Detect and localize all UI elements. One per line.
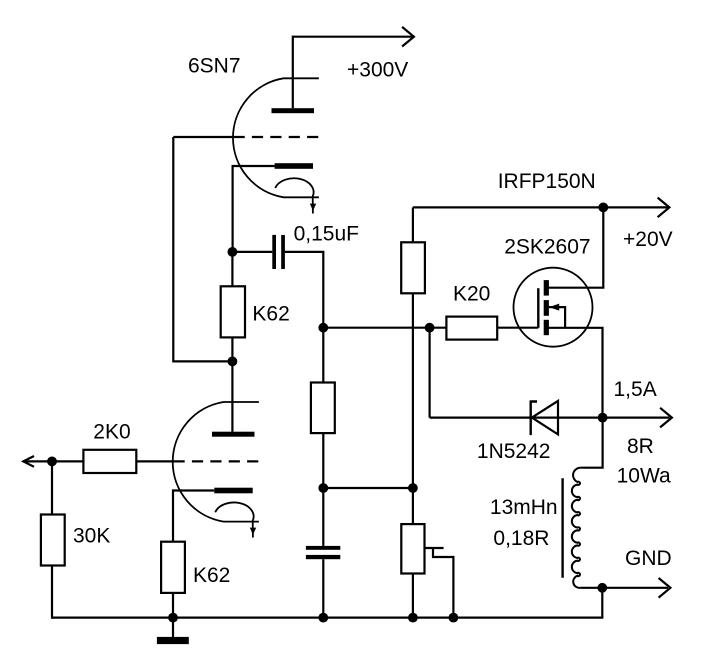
Q1 gate bar — [537, 288, 539, 328]
node mid rail right — [408, 483, 418, 493]
Q1 source lead wire — [549, 328, 603, 418]
resistor R4 K62 lower — [161, 542, 185, 593]
resistor R2 2K0 — [83, 450, 136, 473]
arrow output — [660, 408, 672, 428]
node cap/gate rail — [318, 323, 328, 333]
node bottom rail tap — [449, 613, 459, 623]
U1a cathode bar — [275, 163, 313, 169]
node input — [47, 457, 57, 467]
wire gate node down to zener rail — [429, 328, 431, 418]
zener D1 cathode bar — [531, 400, 537, 435]
wire K20 to gate — [497, 327, 538, 329]
wire bottom ground rail — [52, 616, 603, 618]
U1a grid dashed line — [234, 136, 319, 138]
svg-text:0,15uF: 0,15uF — [294, 223, 359, 246]
resistor R7 top middle — [401, 242, 425, 293]
tube U1a 6SN7 envelope — [233, 78, 319, 197]
resistor R1 K62 upper — [221, 286, 245, 337]
resistor R6 middle — [311, 383, 335, 434]
U1b grid dashed line — [174, 460, 259, 462]
capacitor C2 electrolytic plates — [306, 546, 340, 559]
wire C2 bottom lead — [322, 559, 324, 617]
wire inductor bottom lead — [580, 587, 602, 589]
mosfet Q1 2SK2607 circle — [514, 268, 593, 347]
wire +20V rail — [413, 206, 668, 208]
wire R7 leads — [412, 207, 414, 524]
U1a grid lead wire — [173, 136, 233, 138]
trimmer tap — [424, 548, 454, 618]
node GND junction — [597, 583, 607, 593]
zener D1 triangle — [532, 401, 558, 435]
resistor R5 K20 — [446, 317, 497, 340]
svg-text:K62: K62 — [252, 303, 289, 326]
U1b anode bar — [212, 432, 255, 437]
wire K62 upper leads — [231, 252, 233, 362]
svg-text:1,5A: 1,5A — [614, 378, 657, 401]
wire down to inductor — [580, 418, 602, 468]
svg-text:6SN7: 6SN7 — [188, 54, 241, 77]
node gate/zener junction — [425, 323, 435, 333]
svg-text:13mHn: 13mHn — [490, 496, 558, 519]
wire grid feedback (left long wire) — [173, 137, 232, 361]
ground symbol — [157, 618, 189, 645]
inductor L1 coil — [572, 468, 580, 588]
Q1 channel segments — [544, 280, 549, 335]
wire input to 2K0 — [23, 460, 83, 462]
wire +300V rail — [293, 36, 413, 38]
U1a anode lead wire — [292, 36, 294, 109]
node bottom rail R8 — [408, 613, 418, 623]
svg-text:+20V: +20V — [623, 228, 673, 251]
arrow +300V — [402, 27, 414, 47]
arrow +20V — [658, 198, 670, 218]
wire grid lead U1b — [136, 460, 173, 462]
wire GND rail — [602, 587, 668, 589]
wire zener rail — [430, 417, 603, 419]
wire R6 leads — [322, 328, 324, 546]
wire gate rail y=327.7 — [323, 327, 446, 329]
wire K62 lower bottom lead — [172, 593, 174, 618]
wire mid rail y=487.5 — [323, 487, 413, 489]
node ground junction — [168, 613, 178, 623]
svg-text:2K0: 2K0 — [93, 420, 130, 443]
svg-text:0,18R: 0,18R — [493, 527, 549, 550]
U1b anode lead wire — [231, 361, 233, 431]
svg-text:30K: 30K — [73, 525, 110, 548]
svg-text:IRFP150N: IRFP150N — [498, 170, 596, 193]
svg-text:K20: K20 — [453, 282, 490, 305]
Q1 drain lead wire — [549, 207, 604, 287]
U1a anode bar — [272, 108, 315, 113]
node K62/plate junction — [228, 357, 238, 367]
wire R8 bottom lead — [412, 574, 414, 618]
resistor R3 30K — [41, 515, 65, 566]
wire 30K leads — [51, 461, 53, 618]
wire output rail — [603, 417, 670, 419]
arrow GND — [659, 578, 671, 598]
trimmer R8 — [401, 524, 424, 573]
svg-text:K62: K62 — [193, 564, 230, 587]
node cathode/cap junction — [228, 247, 238, 257]
svg-text:2SK2607: 2SK2607 — [504, 235, 590, 258]
Q1 body lead + arrow — [549, 304, 565, 328]
svg-text:+300V: +300V — [347, 59, 408, 82]
wire cap left lead — [232, 251, 272, 253]
U1b cathode bar — [214, 488, 252, 494]
wire GND node to bottom rail — [601, 588, 603, 618]
node bottom rail C2 — [318, 613, 328, 623]
U1b heater arrow — [215, 502, 256, 537]
arrow input left — [23, 456, 34, 467]
node mid rail left — [318, 483, 328, 493]
U1a cathode lead wire — [233, 166, 275, 252]
svg-text:8R: 8R — [627, 435, 654, 458]
U1b cathode lead wire — [173, 491, 214, 542]
wire cap right lead — [285, 252, 323, 328]
capacitor C1 0,15uF plates — [272, 235, 285, 269]
svg-text:GND: GND — [625, 547, 672, 570]
svg-text:1N5242: 1N5242 — [477, 440, 551, 463]
node drain/+20V — [598, 203, 608, 213]
tube U1b envelope — [173, 402, 259, 522]
svg-text:10Wa: 10Wa — [617, 464, 671, 487]
inductor core bar — [561, 478, 563, 577]
U1a heater arrow — [275, 178, 316, 213]
node zener/source junction — [598, 413, 608, 423]
